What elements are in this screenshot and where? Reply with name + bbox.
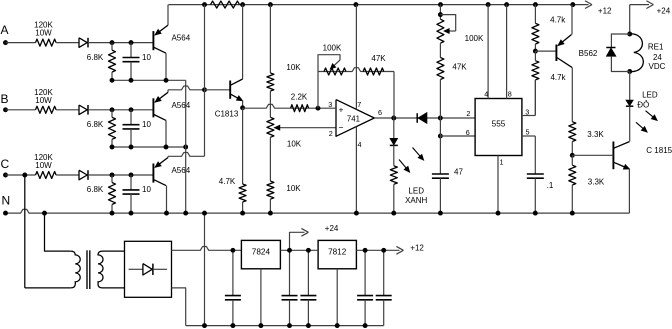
svg-text:47: 47 xyxy=(454,168,463,177)
svg-text:47K: 47K xyxy=(371,54,386,63)
svg-text:4.7k: 4.7k xyxy=(550,15,566,24)
svg-text:+: + xyxy=(339,104,344,114)
svg-text:6.8K: 6.8K xyxy=(87,53,104,62)
svg-text:4: 4 xyxy=(358,140,362,149)
svg-text:100K: 100K xyxy=(323,44,342,53)
svg-text:6.8K: 6.8K xyxy=(87,120,104,129)
svg-text:ĐỎ: ĐỎ xyxy=(637,101,649,110)
svg-text:100K: 100K xyxy=(465,34,484,43)
svg-text:.1: .1 xyxy=(547,181,554,190)
svg-text:LED: LED xyxy=(642,90,658,99)
svg-text:+12: +12 xyxy=(410,244,424,253)
svg-text:10K: 10K xyxy=(286,63,301,72)
svg-text:741: 741 xyxy=(347,115,360,124)
svg-text:10K: 10K xyxy=(287,139,302,148)
svg-text:B562: B562 xyxy=(579,49,598,58)
svg-text:1: 1 xyxy=(500,158,504,167)
svg-text:XANH: XANH xyxy=(405,196,427,205)
svg-text:6: 6 xyxy=(466,128,470,137)
svg-text:B: B xyxy=(1,92,9,106)
svg-text:10: 10 xyxy=(142,185,151,194)
svg-text:A564: A564 xyxy=(171,166,190,175)
svg-text:+24: +24 xyxy=(325,224,339,233)
svg-text:C: C xyxy=(1,157,10,171)
svg-text:24: 24 xyxy=(653,53,662,62)
svg-text:555: 555 xyxy=(492,120,506,129)
svg-text:−: − xyxy=(339,123,344,133)
svg-text:N: N xyxy=(2,193,11,207)
svg-text:+24: +24 xyxy=(657,7,671,16)
svg-text:10: 10 xyxy=(142,120,151,129)
svg-text:C1813: C1813 xyxy=(215,110,239,119)
svg-text:A564: A564 xyxy=(171,101,190,110)
svg-text:2: 2 xyxy=(466,109,470,118)
svg-text:10W: 10W xyxy=(35,96,52,105)
svg-text:5: 5 xyxy=(526,127,530,136)
svg-text:8: 8 xyxy=(508,89,512,98)
svg-text:3.3K: 3.3K xyxy=(587,130,604,139)
svg-text:3: 3 xyxy=(525,108,529,117)
svg-text:4.7k: 4.7k xyxy=(550,73,566,82)
svg-text:LED: LED xyxy=(408,186,424,195)
svg-text:7812: 7812 xyxy=(328,247,347,256)
svg-text:10K: 10K xyxy=(286,184,301,193)
svg-text:C 1815: C 1815 xyxy=(646,146,672,155)
svg-text:VDC: VDC xyxy=(649,62,666,71)
svg-text:+12: +12 xyxy=(598,7,612,16)
svg-text:RE1: RE1 xyxy=(648,42,664,51)
svg-text:6.8K: 6.8K xyxy=(87,185,104,194)
svg-text:10: 10 xyxy=(142,53,151,62)
svg-text:10W: 10W xyxy=(35,29,52,38)
svg-text:7824: 7824 xyxy=(252,247,271,256)
svg-text:7: 7 xyxy=(357,100,361,109)
svg-text:A: A xyxy=(1,23,9,37)
svg-text:2: 2 xyxy=(329,129,333,138)
svg-text:10W: 10W xyxy=(35,161,52,170)
svg-text:2.2K: 2.2K xyxy=(291,93,308,102)
svg-text:4: 4 xyxy=(484,89,488,98)
svg-text:6: 6 xyxy=(378,108,382,117)
svg-text:3.3K: 3.3K xyxy=(588,178,605,187)
svg-text:4.7K: 4.7K xyxy=(219,177,236,186)
svg-text:A564: A564 xyxy=(171,34,190,43)
svg-text:47K: 47K xyxy=(452,62,467,71)
